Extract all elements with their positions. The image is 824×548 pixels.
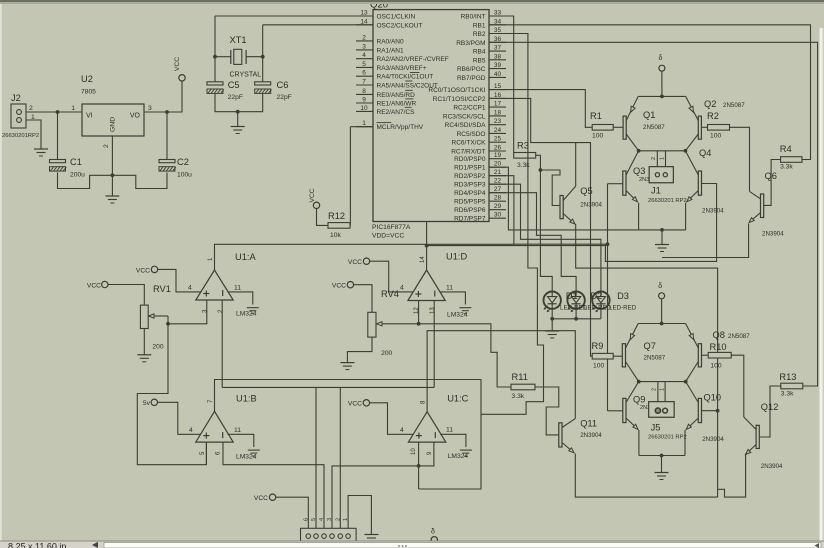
svg-text:R9: R9 bbox=[592, 341, 604, 351]
svg-text:R12: R12 bbox=[328, 211, 345, 221]
svg-text:10: 10 bbox=[360, 105, 368, 112]
svg-text:11: 11 bbox=[446, 427, 453, 434]
svg-text:δ: δ bbox=[658, 283, 662, 290]
svg-text:D2: D2 bbox=[590, 291, 602, 301]
svg-text:RE1/AN6/WR: RE1/AN6/WR bbox=[377, 101, 417, 108]
svg-text:7805: 7805 bbox=[81, 89, 96, 96]
svg-text:5: 5 bbox=[362, 61, 366, 68]
svg-text:2: 2 bbox=[103, 144, 110, 148]
svg-text:RB3/PGM: RB3/PGM bbox=[456, 40, 485, 47]
svg-text:RV1: RV1 bbox=[153, 284, 171, 294]
svg-text:LED-RED: LED-RED bbox=[609, 305, 637, 312]
svg-text:28: 28 bbox=[494, 195, 502, 202]
svg-text:3.3k: 3.3k bbox=[780, 164, 793, 171]
svg-text:RB0/INT: RB0/INT bbox=[461, 14, 486, 21]
svg-text:Q9: Q9 bbox=[633, 395, 645, 405]
svg-text:37: 37 bbox=[494, 45, 502, 52]
svg-text:1: 1 bbox=[343, 518, 349, 521]
svg-text:Q1: Q1 bbox=[643, 110, 655, 120]
svg-text:VI: VI bbox=[86, 113, 93, 120]
svg-text:VCC: VCC bbox=[174, 57, 181, 71]
svg-text:200: 200 bbox=[381, 350, 392, 357]
svg-text:RD2/PSP2: RD2/PSP2 bbox=[454, 173, 486, 180]
svg-text:2N3904: 2N3904 bbox=[762, 231, 784, 238]
svg-text:100: 100 bbox=[593, 363, 604, 370]
svg-text:8: 8 bbox=[362, 88, 366, 95]
svg-text:2: 2 bbox=[335, 518, 341, 521]
svg-text:3.3k: 3.3k bbox=[512, 393, 525, 400]
svg-text:C1: C1 bbox=[70, 157, 82, 167]
svg-text:R1: R1 bbox=[590, 111, 602, 121]
svg-text:24: 24 bbox=[494, 127, 502, 134]
svg-text:RD7/PSP7: RD7/PSP7 bbox=[454, 216, 486, 223]
svg-text:δ: δ bbox=[431, 529, 435, 536]
svg-text:40: 40 bbox=[494, 71, 502, 78]
svg-text:100: 100 bbox=[592, 133, 603, 140]
svg-text:PIC16F877A: PIC16F877A bbox=[372, 224, 411, 231]
svg-text:R11: R11 bbox=[512, 372, 528, 382]
svg-text:RB7/PGD: RB7/PGD bbox=[457, 75, 486, 82]
svg-text:RC4/SDI/SDA: RC4/SDI/SDA bbox=[445, 122, 486, 129]
svg-text:RD5/PSP5: RD5/PSP5 bbox=[454, 199, 486, 206]
svg-text:11: 11 bbox=[234, 427, 241, 434]
svg-text:Q4: Q4 bbox=[699, 148, 711, 158]
svg-text:RC2/CCP1: RC2/CCP1 bbox=[453, 105, 486, 112]
svg-text:2N3904: 2N3904 bbox=[580, 202, 602, 209]
svg-text:OSC1/CLKIN: OSC1/CLKIN bbox=[377, 14, 416, 21]
svg-text:Q10: Q10 bbox=[704, 393, 722, 403]
svg-text:RB2: RB2 bbox=[473, 31, 486, 38]
svg-text:U1:A: U1:A bbox=[235, 252, 256, 262]
svg-text:R2: R2 bbox=[707, 111, 719, 121]
svg-text:11: 11 bbox=[234, 285, 241, 292]
svg-text:D3: D3 bbox=[617, 291, 629, 301]
svg-text:7: 7 bbox=[362, 79, 366, 86]
svg-text:2N5087: 2N5087 bbox=[728, 333, 750, 340]
svg-text:2N5087: 2N5087 bbox=[643, 124, 665, 131]
svg-text:26630201RP2: 26630201RP2 bbox=[2, 133, 39, 139]
svg-text:U1:C: U1:C bbox=[447, 394, 468, 404]
svg-text:U1:B: U1:B bbox=[236, 394, 257, 404]
svg-text:RC7/RX/DT: RC7/RX/DT bbox=[451, 149, 485, 156]
svg-text:Q3: Q3 bbox=[633, 166, 645, 176]
svg-text:VDD=VCC: VDD=VCC bbox=[372, 233, 404, 240]
svg-text:LM324: LM324 bbox=[448, 453, 469, 460]
svg-text:38: 38 bbox=[494, 53, 502, 60]
svg-text:RB1: RB1 bbox=[473, 22, 486, 29]
svg-text:δ: δ bbox=[659, 55, 663, 62]
svg-text:LM324: LM324 bbox=[447, 312, 468, 319]
svg-text:RD1/PSP1: RD1/PSP1 bbox=[454, 165, 486, 172]
svg-text:CRYSTAL: CRYSTAL bbox=[230, 72, 262, 79]
svg-text:4: 4 bbox=[188, 285, 192, 292]
svg-text:RB6/PGC: RB6/PGC bbox=[457, 66, 486, 73]
svg-text:2: 2 bbox=[652, 388, 658, 391]
svg-text:30: 30 bbox=[494, 212, 502, 219]
svg-text:Q11: Q11 bbox=[580, 419, 597, 429]
svg-text:LM324: LM324 bbox=[236, 311, 257, 318]
svg-text:J5: J5 bbox=[651, 423, 661, 433]
svg-text:RB5: RB5 bbox=[473, 57, 486, 64]
svg-text:RV4: RV4 bbox=[381, 289, 399, 299]
svg-text:3.3k: 3.3k bbox=[781, 391, 794, 398]
svg-text:2N3904: 2N3904 bbox=[702, 436, 724, 443]
svg-text:VCC: VCC bbox=[254, 495, 268, 502]
svg-text:RC0/T1OSO/T1CKI: RC0/T1OSO/T1CKI bbox=[428, 87, 485, 94]
svg-text:VCC: VCC bbox=[309, 188, 316, 202]
svg-text:U1:D: U1:D bbox=[446, 252, 467, 262]
svg-text:22pF: 22pF bbox=[277, 94, 292, 101]
svg-text:23: 23 bbox=[494, 118, 502, 125]
svg-text:RA2/AN2/VREF-/CVREF: RA2/AN2/VREF-/CVREF bbox=[377, 56, 449, 63]
svg-text:29: 29 bbox=[494, 203, 502, 210]
svg-text:8.25 x 11.60 in: 8.25 x 11.60 in bbox=[8, 542, 66, 548]
svg-text:Q2: Q2 bbox=[704, 99, 716, 109]
svg-text:4: 4 bbox=[362, 52, 366, 59]
svg-text:2N5087: 2N5087 bbox=[644, 355, 666, 362]
svg-text:1: 1 bbox=[660, 157, 666, 160]
svg-text:200: 200 bbox=[152, 344, 163, 351]
svg-text:RC5/SDO: RC5/SDO bbox=[457, 131, 486, 138]
svg-text:RE2/AN7/CS: RE2/AN7/CS bbox=[377, 109, 416, 116]
svg-text:39: 39 bbox=[494, 62, 502, 69]
svg-text:6: 6 bbox=[303, 518, 309, 521]
svg-text:3: 3 bbox=[362, 43, 366, 50]
svg-text:2N3904: 2N3904 bbox=[761, 463, 783, 470]
svg-text:R10: R10 bbox=[710, 342, 727, 352]
svg-text:2: 2 bbox=[362, 34, 366, 41]
svg-text:10: 10 bbox=[411, 448, 417, 455]
svg-text:VCC: VCC bbox=[136, 267, 150, 274]
svg-text:Q12: Q12 bbox=[761, 402, 779, 412]
svg-text:RA0/AN0: RA0/AN0 bbox=[377, 38, 404, 45]
svg-text:U2: U2 bbox=[81, 74, 93, 84]
svg-text:10k: 10k bbox=[330, 232, 341, 239]
svg-text:2: 2 bbox=[29, 105, 33, 112]
svg-text:4: 4 bbox=[400, 427, 404, 434]
svg-text:13: 13 bbox=[430, 307, 436, 314]
svg-text:4: 4 bbox=[319, 518, 325, 521]
svg-text:RD4/PSP4: RD4/PSP4 bbox=[454, 190, 486, 197]
svg-text:GND: GND bbox=[110, 117, 117, 132]
svg-text:25: 25 bbox=[494, 136, 502, 143]
svg-text:RA1/AN1: RA1/AN1 bbox=[377, 47, 404, 54]
svg-text:5v: 5v bbox=[143, 400, 151, 407]
svg-text:J1: J1 bbox=[651, 186, 661, 196]
svg-text:3: 3 bbox=[327, 518, 333, 521]
svg-text:13: 13 bbox=[360, 10, 368, 17]
svg-text:Q6: Q6 bbox=[765, 171, 777, 181]
svg-text:26630201 RP2: 26630201 RP2 bbox=[648, 198, 687, 204]
svg-text:26630201 RP2: 26630201 RP2 bbox=[648, 435, 687, 441]
svg-text:14: 14 bbox=[360, 18, 368, 25]
svg-text:RE0/AN5/RD: RE0/AN5/RD bbox=[377, 92, 416, 99]
svg-text:VCC: VCC bbox=[332, 283, 346, 290]
svg-text:RB4: RB4 bbox=[473, 49, 486, 56]
svg-text:D1: D1 bbox=[566, 291, 578, 301]
svg-text:RA3/AN3/VREF+: RA3/AN3/VREF+ bbox=[377, 65, 427, 72]
svg-text:2N3904: 2N3904 bbox=[702, 208, 724, 215]
svg-text:2N5087: 2N5087 bbox=[723, 102, 745, 109]
svg-text:Q7: Q7 bbox=[644, 341, 656, 351]
svg-text:26: 26 bbox=[494, 145, 502, 152]
svg-text:4: 4 bbox=[189, 427, 193, 434]
svg-text:VCC: VCC bbox=[348, 259, 362, 266]
svg-text:RC6/TX/CK: RC6/TX/CK bbox=[452, 140, 487, 147]
svg-text:VCC: VCC bbox=[87, 282, 101, 289]
svg-text:3: 3 bbox=[148, 105, 152, 112]
svg-text:VCC: VCC bbox=[348, 401, 362, 408]
svg-text:17: 17 bbox=[494, 101, 502, 108]
svg-text:OSC2/CLKOUT: OSC2/CLKOUT bbox=[377, 22, 423, 29]
svg-text:12: 12 bbox=[414, 307, 420, 314]
svg-text:RD0/PSP0: RD0/PSP0 bbox=[454, 156, 486, 163]
svg-text:XT1: XT1 bbox=[230, 35, 247, 45]
svg-text:1: 1 bbox=[660, 388, 666, 391]
svg-text:22pF: 22pF bbox=[228, 94, 243, 101]
svg-text:100: 100 bbox=[710, 133, 721, 140]
svg-text:RD6/PSP6: RD6/PSP6 bbox=[454, 207, 486, 214]
svg-text:9: 9 bbox=[362, 97, 366, 104]
svg-text:R13: R13 bbox=[779, 372, 796, 382]
svg-text:11: 11 bbox=[446, 285, 453, 292]
svg-text:4: 4 bbox=[400, 285, 404, 292]
svg-text:100u: 100u bbox=[177, 172, 192, 179]
svg-text:J2: J2 bbox=[11, 93, 21, 103]
svg-text:18: 18 bbox=[494, 109, 502, 116]
svg-text:RC1/T1OSI/CCP2: RC1/T1OSI/CCP2 bbox=[433, 96, 486, 103]
svg-text:Q8: Q8 bbox=[713, 330, 725, 340]
svg-text:RD3/PSP3: RD3/PSP3 bbox=[454, 182, 486, 189]
svg-text:5: 5 bbox=[311, 518, 317, 521]
svg-text:R4: R4 bbox=[780, 144, 792, 154]
svg-text:MCLR/Vpp/THV: MCLR/Vpp/THV bbox=[377, 124, 424, 131]
svg-text:RA4/T0CKI/C1OUT: RA4/T0CKI/C1OUT bbox=[377, 74, 434, 81]
svg-text:C5: C5 bbox=[228, 80, 240, 90]
svg-text:C2: C2 bbox=[177, 157, 189, 167]
svg-text:1: 1 bbox=[71, 105, 75, 112]
svg-text:2N3904: 2N3904 bbox=[580, 432, 602, 439]
svg-text:RC3/SCK/SCL: RC3/SCK/SCL bbox=[443, 113, 486, 120]
svg-text:R3: R3 bbox=[517, 141, 529, 151]
svg-text:Q5: Q5 bbox=[580, 186, 592, 196]
svg-text:C6: C6 bbox=[277, 80, 289, 90]
svg-text:2: 2 bbox=[651, 157, 657, 160]
svg-text:14: 14 bbox=[420, 256, 426, 263]
svg-text:VO: VO bbox=[130, 113, 141, 120]
svg-text:19: 19 bbox=[494, 152, 502, 159]
svg-text:200u: 200u bbox=[70, 172, 85, 179]
svg-text:100: 100 bbox=[710, 363, 721, 370]
svg-text:LM324: LM324 bbox=[236, 454, 257, 461]
svg-text:6: 6 bbox=[362, 70, 366, 77]
